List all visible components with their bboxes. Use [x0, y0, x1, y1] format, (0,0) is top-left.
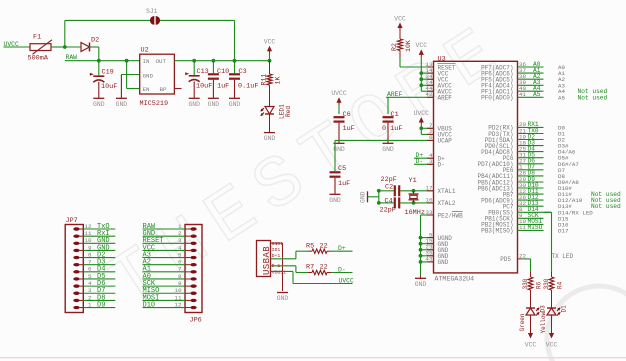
net label RAW (JP6)	[143, 223, 156, 231]
pin number 9	[519, 212, 523, 219]
svg-text:8: 8	[178, 273, 182, 280]
wire D+ stub	[414, 157, 434, 159]
svg-text:GND1: GND1	[272, 241, 284, 247]
net label A0	[533, 61, 541, 68]
svg-text:Yellow: Yellow	[540, 311, 547, 333]
svg-text:10uF: 10uF	[101, 83, 117, 91]
wire VCC arrow stem	[269, 53, 271, 61]
svg-text:Not used: Not used	[578, 94, 608, 101]
ground under IC	[415, 278, 427, 288]
svg-text:MISO: MISO	[528, 224, 543, 231]
wire XTAL1 net	[379, 190, 434, 192]
wire net A5 pin 41	[518, 96, 544, 98]
wire R2 to RESET pin	[400, 51, 434, 68]
pin number 5 (JP6)	[178, 251, 182, 258]
pin stub R5 right	[327, 250, 331, 252]
junction node C2 left	[377, 189, 381, 193]
decorative bottom border	[0, 357, 626, 358]
label A1	[558, 70, 565, 77]
svg-text:ID1: ID1	[272, 247, 281, 253]
net label UVCC (at USB)	[339, 277, 355, 284]
net label A2	[533, 73, 541, 80]
connector JP7	[65, 217, 83, 313]
pin number 25	[519, 145, 527, 152]
wire net D4 pin 25	[518, 151, 544, 153]
pin number 6 (JP7)	[88, 266, 92, 273]
pin number 22 (PD5)	[519, 253, 527, 260]
net label GND (JP7)	[97, 244, 110, 252]
net label D12	[528, 194, 539, 201]
svg-text:6: 6	[178, 259, 182, 266]
wire gnd bus stubs	[421, 238, 434, 262]
svg-text:PE2/HWB: PE2/HWB	[438, 212, 464, 219]
label TX LED	[552, 253, 574, 260]
wire R4 to D1	[551, 290, 553, 308]
net label SCK	[528, 212, 539, 219]
net label D3 (JP7)	[97, 259, 105, 267]
svg-text:GND: GND	[93, 101, 105, 108]
ground under C5	[329, 194, 341, 204]
pin number 3 (JP7)	[88, 287, 92, 294]
pin stub R7 right	[327, 272, 331, 274]
junction node R11	[268, 59, 272, 63]
wire C13 lead	[193, 61, 195, 76]
net label D10	[528, 182, 539, 189]
wire net D6 pin 27	[518, 163, 544, 165]
svg-text:XTAL1: XTAL1	[438, 188, 456, 195]
svg-text:D3: D3	[540, 305, 547, 313]
pin number 30	[519, 182, 527, 189]
svg-text:D+: D+	[338, 245, 346, 252]
wire D-1 to R7	[271, 266, 309, 273]
pin number 12	[519, 188, 527, 195]
junction node GND15	[419, 242, 423, 246]
svg-text:PB3(MISO): PB3(MISO)	[481, 228, 513, 235]
net label D5 (JP7)	[97, 273, 105, 281]
svg-text:D+1: D+1	[272, 253, 281, 259]
pin number 5 (JP7)	[88, 273, 92, 280]
wire gnd to cap junction	[368, 196, 379, 198]
pin number 38	[519, 73, 527, 80]
wire D+1 to R5	[271, 251, 309, 259]
connector JP6	[185, 225, 202, 325]
pin number 10 (JP6)	[174, 287, 182, 294]
wire net D12 pin 26	[518, 199, 544, 201]
svg-text:22pF: 22pF	[381, 176, 397, 184]
wire net D11 pin 12	[518, 193, 544, 195]
wire net D10 pin 30	[518, 187, 544, 189]
label A4	[558, 88, 565, 95]
ground under C3	[229, 98, 241, 108]
junction node VBUS	[419, 126, 423, 130]
pin number 9 (JP7)	[88, 244, 92, 251]
diode D2	[81, 37, 99, 52]
ground under C10	[208, 98, 220, 108]
resistor R6	[522, 277, 543, 290]
capacitor C1	[382, 111, 402, 133]
wire JP6 pin 10 (MISO)	[143, 292, 186, 294]
svg-text:C19: C19	[102, 69, 114, 77]
wire JP7 pin 3 (D7)	[83, 292, 115, 294]
svg-text:PF0(ADC0): PF0(ADC0)	[481, 95, 513, 102]
wire net MOSI pin 10	[518, 223, 544, 225]
wire net TX0 pin 21	[518, 133, 544, 135]
power symbol VCC (regulator output)	[264, 39, 276, 54]
wire net D3 pin 18	[518, 145, 544, 147]
svg-text:3: 3	[178, 237, 182, 244]
wire JP6 pin 9 (SCK)	[143, 285, 186, 287]
net label D7	[528, 164, 536, 171]
pin number 21	[519, 127, 527, 134]
wire JP7 pin 7 (D3)	[83, 264, 115, 266]
wire UVCC to C6	[338, 105, 340, 115]
wire C10 to ground	[212, 80, 214, 99]
wire R11 to LED1	[269, 85, 271, 107]
pin number 1 (JP7)	[88, 301, 92, 308]
label D3#	[558, 143, 569, 150]
wire C6 to ground	[338, 123, 340, 144]
wire UVCC input	[4, 46, 31, 48]
pin number 1 (JP6)	[178, 223, 182, 230]
svg-text:VBUS1: VBUS1	[272, 269, 287, 275]
net label RAW	[66, 54, 78, 61]
svg-text:GND: GND	[208, 101, 220, 108]
svg-text:Red: Red	[285, 106, 292, 117]
pin number 6 (JP6)	[178, 259, 182, 266]
LED D1	[540, 305, 568, 334]
svg-text:2: 2	[88, 294, 92, 301]
svg-text:11: 11	[174, 294, 182, 301]
net label D7 (JP7)	[97, 287, 105, 295]
pin number 8 (JP6)	[178, 273, 182, 280]
resistor R4	[543, 277, 564, 290]
junction node VCC pin34	[419, 77, 423, 81]
svg-text:C2: C2	[385, 184, 393, 192]
wire net A2 pin 38	[518, 78, 544, 80]
wire JP6 pin 11 (MOSI)	[143, 299, 186, 301]
label D2	[558, 137, 565, 144]
svg-text:12: 12	[174, 301, 182, 308]
label D5#	[558, 155, 569, 162]
net label A2 (JP6)	[143, 259, 151, 267]
wire JP7 pin 5 (D5)	[83, 278, 115, 280]
svg-text:Not used: Not used	[591, 203, 621, 210]
wire net D7 pin 1	[518, 169, 544, 171]
svg-text:C10: C10	[217, 68, 229, 76]
wire JP7 pin 2 (D8)	[83, 299, 115, 301]
wire C5 to ground	[334, 178, 336, 195]
svg-text:1: 1	[178, 223, 182, 230]
svg-text:5: 5	[88, 273, 92, 280]
svg-text:EN: EN	[143, 86, 150, 93]
label A0	[558, 64, 565, 71]
junction node GND43	[419, 260, 423, 264]
pin number 26	[519, 194, 527, 201]
svg-text:Green: Green	[519, 313, 526, 331]
wire JP7 pin 12 (TxO)	[83, 228, 115, 230]
svg-text:R5: R5	[306, 242, 314, 250]
svg-text:22pF: 22pF	[380, 206, 396, 214]
label D16	[558, 221, 569, 228]
svg-text:R2: R2	[391, 43, 398, 51]
svg-text:10: 10	[174, 287, 182, 294]
wire PE2/HWB to gnd bus	[421, 215, 434, 276]
wire link to R4	[551, 272, 553, 277]
pin number 19	[519, 133, 527, 140]
resistor R7	[306, 264, 328, 275]
svg-text:C1: C1	[391, 111, 399, 119]
wire net D13 pin 32	[518, 205, 544, 207]
label D14/RX LED	[558, 209, 593, 216]
pin number 12 (JP6)	[174, 301, 182, 308]
net label GND (JP7)	[97, 237, 110, 245]
pin number 39	[519, 79, 527, 86]
svg-text:GND: GND	[277, 295, 289, 302]
ground under C1	[382, 143, 394, 153]
label A5	[558, 94, 565, 101]
wire D3 to VCC	[530, 315, 532, 331]
svg-text:4: 4	[88, 280, 92, 287]
pin number 11 (JP7)	[84, 230, 92, 237]
svg-text:11: 11	[84, 230, 92, 237]
USB connector J1 (USBAB)	[257, 241, 287, 277]
pin number 2 (JP6)	[178, 230, 182, 237]
svg-text:D17: D17	[558, 227, 569, 234]
svg-text:MIC5219: MIC5219	[140, 100, 169, 108]
svg-text:6: 6	[88, 266, 92, 273]
svg-text:7: 7	[88, 259, 92, 266]
capacitor C6	[334, 111, 355, 133]
svg-text:GND: GND	[116, 101, 128, 108]
label D15	[558, 215, 569, 222]
svg-text:GND: GND	[188, 101, 200, 108]
wire D- stub	[414, 163, 434, 165]
junction node RAW/C19	[97, 59, 101, 63]
wire LED1 to ground	[269, 114, 271, 133]
label D4/A6	[558, 149, 576, 156]
voltage regulator U2	[140, 47, 175, 109]
net label A0 (JP6)	[143, 273, 151, 281]
svg-text:A5: A5	[558, 94, 565, 101]
svg-text:D9: D9	[97, 301, 105, 309]
wire top rail right	[160, 20, 235, 60]
svg-text:VCC: VCC	[264, 39, 276, 46]
svg-text:GND: GND	[229, 101, 241, 108]
svg-text:ATMEGA32U4: ATMEGA32U4	[435, 276, 475, 283]
svg-text:R4: R4	[557, 281, 564, 289]
svg-text:TX LED: TX LED	[552, 253, 574, 260]
label Not used (D12)	[591, 197, 621, 204]
pin number 10 (JP7)	[84, 237, 92, 244]
label A3	[558, 82, 565, 89]
wire to R11	[269, 61, 271, 74]
svg-text:RAW: RAW	[66, 54, 78, 61]
label D13#	[558, 203, 572, 210]
svg-text:UVCC: UVCC	[339, 277, 355, 284]
power symbol UVCC (C6)	[331, 90, 347, 105]
net label D2 (JP7)	[97, 251, 105, 259]
junction node GND23	[419, 248, 423, 252]
svg-text:GND: GND	[143, 72, 154, 79]
label D6#/A7	[558, 161, 579, 168]
svg-text:R11: R11	[261, 74, 268, 86]
pin number 29	[519, 176, 527, 183]
svg-text:GND: GND	[329, 197, 341, 204]
ground under USB	[277, 293, 289, 303]
svg-text:10K: 10K	[405, 40, 412, 52]
microcontroller U3 (ATMEGA32U4)	[425, 55, 517, 282]
svg-text:A5: A5	[533, 91, 541, 98]
svg-text:C5: C5	[338, 165, 346, 173]
capacitor C13	[185, 68, 212, 91]
svg-text:VCC: VCC	[416, 42, 428, 49]
capacitor C5	[330, 165, 351, 188]
wire JP7 pin 9 (GND)	[83, 249, 115, 251]
label D10#	[558, 185, 572, 192]
pin number 37	[519, 67, 527, 74]
junction node RAW/EN	[125, 59, 129, 63]
wire VBUS1 to UVCC	[271, 271, 353, 283]
ground under C13	[188, 98, 200, 108]
wire C19 to ground	[98, 82, 100, 98]
svg-text:U2: U2	[141, 47, 149, 55]
net label D3	[528, 139, 536, 146]
label D17	[558, 227, 569, 234]
net label MOSI	[528, 218, 543, 225]
svg-text:2: 2	[178, 230, 182, 237]
net label D13	[528, 200, 539, 207]
label Not used (A4)	[578, 88, 608, 95]
wire C10 lead	[212, 61, 214, 73]
svg-text:U3: U3	[438, 55, 446, 63]
svg-text:GND: GND	[438, 259, 449, 266]
wire to diode	[65, 46, 81, 48]
wire net RX1 pin 20	[518, 126, 544, 128]
wire RAW net	[65, 60, 140, 62]
net label D9	[528, 176, 536, 183]
net label A1	[533, 67, 541, 74]
svg-text:16MHz: 16MHz	[405, 209, 425, 217]
net label D11	[528, 188, 539, 195]
wire R6 to D3	[530, 290, 532, 308]
net label D9 (JP7)	[97, 301, 105, 309]
junction node C4 left	[377, 201, 381, 205]
pin number 7 (JP6)	[178, 266, 182, 273]
net label GND (JP6)	[143, 230, 156, 238]
svg-text:9: 9	[88, 244, 92, 251]
wire JP7 pin 1 (D9)	[83, 307, 115, 309]
svg-text:R7: R7	[306, 264, 314, 272]
ground under LED1	[264, 133, 276, 143]
pin number 9 (JP6)	[178, 280, 182, 287]
net label RESET (JP6)	[143, 237, 164, 245]
ground under U2	[116, 98, 128, 108]
net label D8 (JP7)	[97, 294, 105, 302]
svg-text:D-: D-	[438, 162, 445, 169]
junction node crystal bottom	[412, 201, 416, 205]
label Not used (D13)	[591, 203, 621, 210]
label D1	[558, 131, 565, 138]
label D0	[558, 124, 565, 131]
wire net MISO pin 11	[518, 229, 544, 231]
wire UVCC to VBUS/UVCC pins	[421, 125, 433, 135]
LED D3	[519, 305, 547, 332]
net label MOSI (JP6)	[143, 294, 160, 302]
svg-text:GND: GND	[415, 281, 427, 288]
svg-text:4: 4	[178, 244, 182, 251]
net label D6	[528, 158, 536, 165]
net label D14	[528, 206, 539, 213]
svg-text:C3: C3	[239, 68, 247, 76]
wire JP7 pin 4 (D6)	[83, 285, 115, 287]
svg-text:3: 3	[88, 287, 92, 294]
wire AREF net	[386, 97, 434, 114]
wire JP7 pin 8 (D2)	[83, 257, 115, 259]
power symbol VCC (reset pullup)	[394, 15, 406, 30]
svg-text:22: 22	[320, 264, 328, 272]
wire top rail left	[65, 19, 150, 21]
label D9#/A8	[558, 179, 579, 186]
wire UCAP to C5	[335, 140, 434, 171]
net label RX1	[528, 121, 539, 128]
wire VCC bus	[421, 57, 433, 91]
svg-text:OUT: OUT	[156, 58, 167, 65]
pin stubs U3 left	[427, 67, 434, 262]
junction node C10	[212, 59, 216, 63]
svg-text:1uF: 1uF	[338, 180, 350, 188]
wire JP6 pin 3 (RESET)	[143, 242, 186, 244]
svg-text:41: 41	[519, 91, 527, 98]
svg-text:12: 12	[84, 223, 92, 230]
wire JP6 pin 4 (VCC)	[143, 249, 186, 251]
svg-text:7: 7	[178, 266, 182, 273]
svg-text:5: 5	[178, 251, 182, 258]
wire JP7 pin 6 (D4)	[83, 271, 115, 273]
svg-text:D10: D10	[143, 301, 156, 309]
wire net A1 pin 37	[518, 72, 544, 74]
svg-text:1: 1	[88, 301, 92, 308]
power symbol VCC (D1)	[546, 331, 558, 348]
wire VCC to R2	[399, 30, 401, 39]
net label D2	[528, 133, 536, 140]
pin number 20	[519, 121, 527, 128]
wire link to R6	[530, 272, 532, 277]
svg-text:UVCC: UVCC	[414, 110, 430, 117]
pin number 32	[519, 200, 527, 207]
wire bus to ground	[420, 276, 422, 279]
svg-text:330: 330	[543, 278, 550, 289]
capacitor C4	[380, 197, 401, 214]
wire net D8 pin 28	[518, 175, 544, 177]
net label A3 (JP6)	[143, 251, 151, 259]
svg-text:SJ1: SJ1	[146, 8, 158, 15]
wire JP6 pin 1 (RAW)	[143, 228, 186, 230]
svg-text:C4: C4	[385, 198, 393, 206]
net label MISO	[528, 224, 543, 231]
svg-text:8: 8	[88, 251, 92, 258]
junction node VCC pin14	[419, 71, 423, 75]
svg-text:D2: D2	[91, 37, 99, 45]
pin number 2 (JP7)	[88, 294, 92, 301]
wire JP6 pin 5 (A3)	[143, 257, 186, 259]
wire D14 to R4	[544, 212, 552, 272]
resistor R2	[391, 39, 412, 52]
net label TxO (JP7)	[97, 223, 110, 231]
svg-text:C6: C6	[343, 111, 351, 119]
svg-text:C13: C13	[197, 68, 209, 76]
svg-text:Y1: Y1	[409, 177, 417, 185]
wire JP7 pin 11 (RxI)	[83, 235, 115, 237]
